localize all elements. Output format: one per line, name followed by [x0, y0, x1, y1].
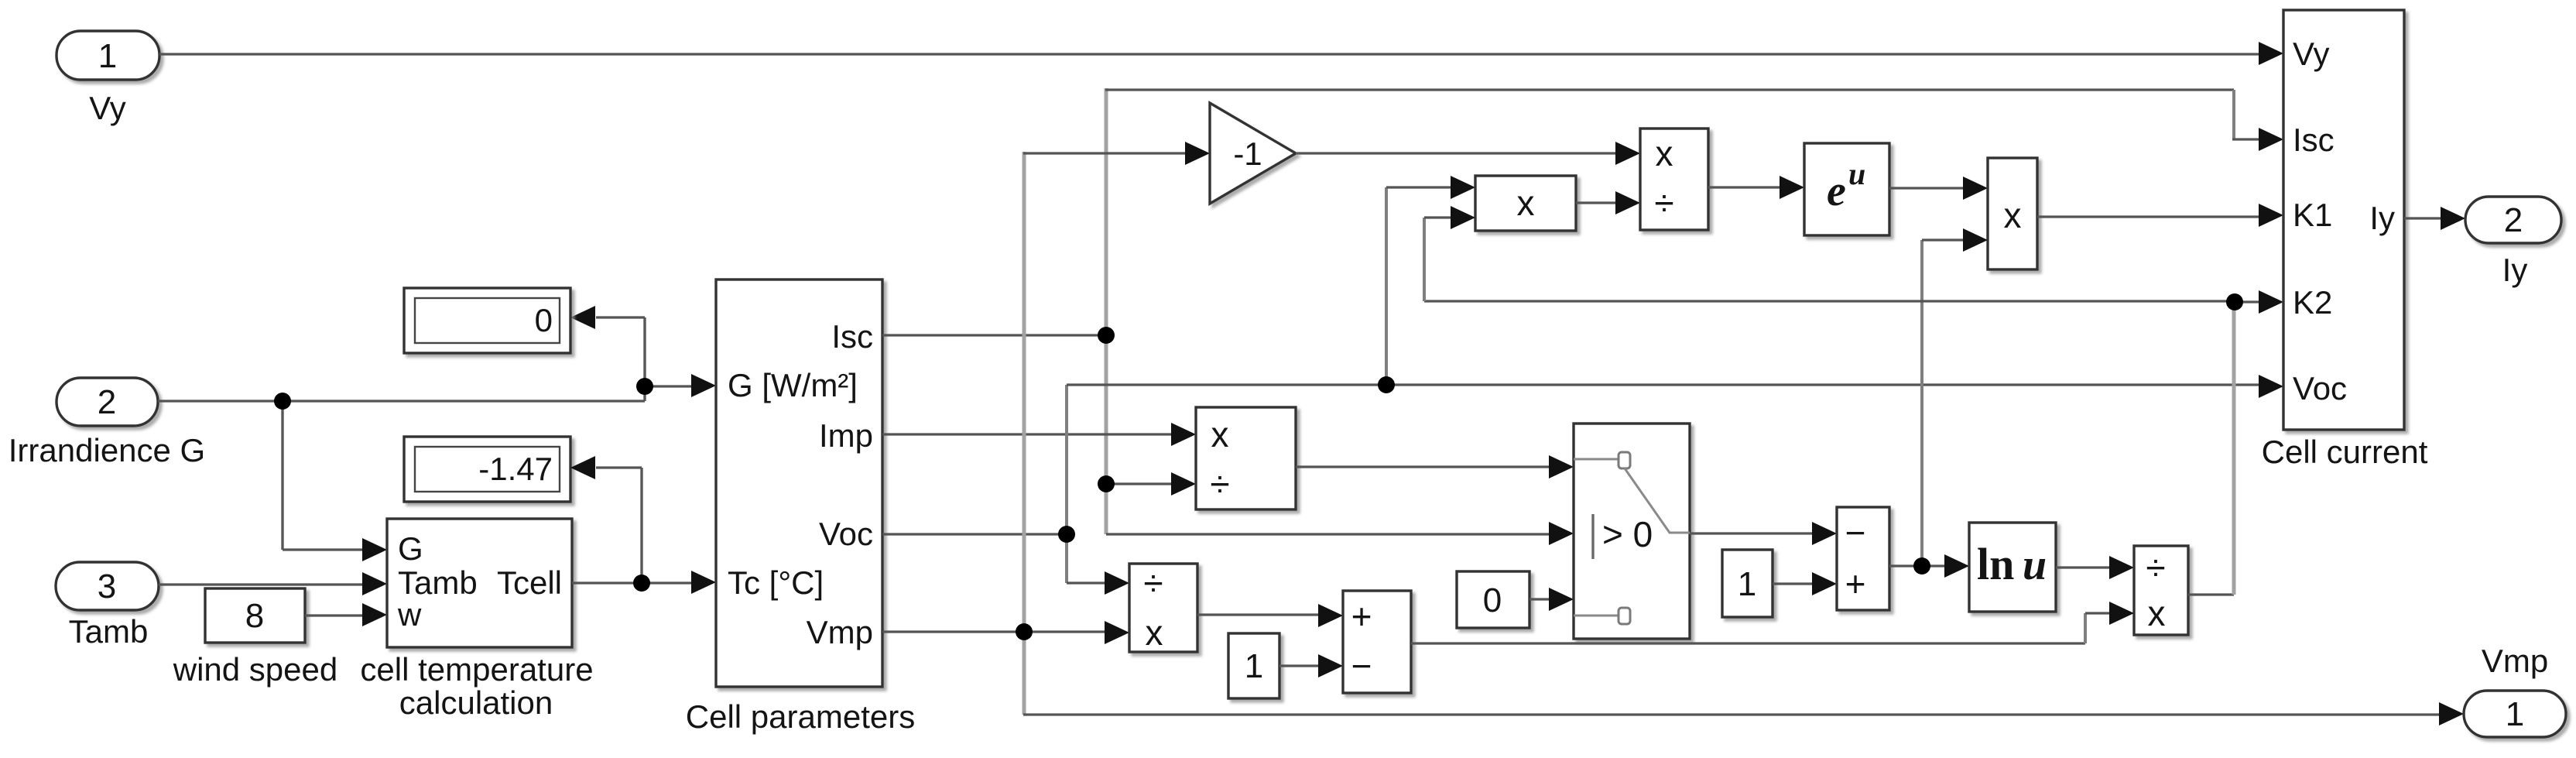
math function exp eu — [1804, 143, 1889, 235]
wire inport 3 to cell temperature Tamb input — [159, 572, 387, 595]
product x tall — [1988, 158, 2037, 269]
constant 1 mid — [1722, 550, 1773, 617]
sum plus minus bottom-left — [1343, 591, 1411, 693]
svg-text:Isc: Isc — [831, 318, 873, 355]
svg-text:x: x — [1146, 612, 1163, 653]
wire switch out to sum minus input — [1690, 522, 1837, 545]
svg-text:Iy: Iy — [2369, 200, 2395, 236]
wire constant 8 to cell temperature w input — [305, 603, 387, 626]
switch greater than 0 — [1574, 424, 1690, 639]
subsystem cell temperature calculation — [360, 519, 593, 721]
svg-text:x: x — [1517, 183, 1535, 223]
svg-text:1: 1 — [98, 37, 117, 75]
product x-divide top — [1640, 129, 1708, 230]
wire sum bottom-left out to divide right x input — [1411, 602, 2134, 643]
wire constant 1 mid to sum plus input — [1773, 572, 1837, 595]
wire exp to product x tall — [1889, 177, 1988, 200]
svg-text:x: x — [2004, 195, 2022, 235]
svg-text:−: − — [1845, 513, 1866, 553]
svg-text:Voc: Voc — [2293, 370, 2347, 406]
wire x-divide to switch input 1 — [1296, 455, 1574, 478]
svg-text:0: 0 — [1483, 581, 1502, 619]
svg-text:Isc: Isc — [2293, 122, 2334, 158]
wire sum out to ln u and product x tall lower input — [1889, 228, 1988, 578]
svg-text:Vmp: Vmp — [807, 614, 873, 650]
constant 1 bottom-left — [1228, 633, 1279, 698]
svg-text:8: 8 — [245, 597, 264, 635]
wire net G: inport 2 to Cell parameters G input, display 0, and cell temperature G input — [158, 306, 716, 561]
svg-text:x: x — [1656, 133, 1673, 173]
wire product x-divide to exp — [1708, 176, 1804, 199]
constant 0 — [1457, 571, 1529, 628]
constant 8 (wind speed) — [173, 588, 337, 688]
svg-text:-1.47: -1.47 — [478, 451, 553, 487]
svg-text:1: 1 — [1738, 565, 1756, 603]
svg-text:G [W/m²]: G [W/m²] — [728, 367, 858, 403]
wire net Vmp: Cell parameters Vmp out to divide block, gain -1, outport Vmp — [882, 142, 2464, 725]
inport 1 (Vy) — [57, 31, 159, 126]
wire net Isc: Cell parameters Isc out to Cell current Isc, x-divide input, switch control — [882, 88, 2283, 545]
svg-text:e: e — [1827, 167, 1846, 215]
svg-text:K2: K2 — [2293, 284, 2332, 321]
gain -1 — [1210, 103, 1296, 204]
svg-text:Tamb: Tamb — [398, 564, 478, 601]
svg-text:ln: ln — [1977, 539, 2014, 589]
math function ln u — [1969, 523, 2056, 612]
svg-text:2: 2 — [98, 383, 116, 421]
svg-text:Vmp: Vmp — [2482, 643, 2548, 679]
svg-text:Voc: Voc — [819, 516, 873, 552]
svg-text:K1: K1 — [2293, 197, 2332, 233]
svg-text:1: 1 — [2506, 695, 2524, 733]
wire gain -1 to product xdiv — [1296, 142, 1640, 165]
wire net Imp: Cell parameters Imp out to x-divide input — [882, 423, 1196, 446]
svg-text:Cell current: Cell current — [2262, 434, 2428, 470]
wire Cell current Iy to outport 2 — [2404, 207, 2465, 230]
svg-text:u: u — [1848, 156, 1865, 191]
display block -1.47 — [404, 437, 570, 502]
svg-text:-1: -1 — [1233, 135, 1262, 172]
wire product x tall to Cell current K1 — [2037, 204, 2283, 227]
svg-text:wind speed: wind speed — [173, 651, 337, 688]
svg-text:+: + — [1351, 596, 1372, 636]
svg-text:+: + — [1845, 564, 1866, 604]
product x small — [1475, 176, 1576, 231]
svg-text:Imp: Imp — [819, 417, 873, 454]
subsystem Cell parameters — [686, 280, 915, 735]
svg-text:Tc [°C]: Tc [°C] — [728, 564, 824, 601]
display block 0 — [404, 288, 570, 353]
wire net K2: divide out to Cell current K2 and product x small lower input — [1424, 206, 2283, 595]
svg-text:0: 0 — [535, 302, 553, 338]
svg-text:Vy: Vy — [89, 90, 125, 126]
svg-text:−: − — [1351, 646, 1372, 686]
svg-text:calculation: calculation — [399, 684, 553, 721]
svg-text:> 0: > 0 — [1602, 514, 1653, 554]
svg-text:Iy: Iy — [2502, 252, 2528, 288]
svg-text:÷: ÷ — [1654, 183, 1673, 223]
divide div-x right — [2134, 546, 2188, 635]
svg-text:x: x — [1211, 414, 1229, 454]
svg-text:Tamb: Tamb — [69, 613, 149, 650]
svg-text:Tcell: Tcell — [497, 564, 562, 601]
svg-text:u: u — [2023, 541, 2047, 589]
svg-text:Irrandience G: Irrandience G — [9, 432, 205, 468]
wire divide left to sum plus bottom-left — [1197, 604, 1343, 627]
subsystem Cell current — [2262, 10, 2428, 470]
svg-text:÷: ÷ — [1143, 563, 1163, 603]
svg-text:2: 2 — [2504, 201, 2523, 239]
product x-divide Imp over Isc — [1196, 407, 1296, 509]
inport 2 (Irrandience G) — [9, 378, 205, 468]
wire constant 1 bottom-left to sum minus input — [1279, 654, 1343, 677]
svg-text:3: 3 — [98, 568, 116, 605]
wire Vy to Cell current — [159, 42, 2283, 65]
svg-text:Cell parameters: Cell parameters — [686, 698, 915, 735]
svg-text:w: w — [397, 596, 422, 633]
wire ln u to divide — [2056, 556, 2134, 579]
svg-text:cell temperature: cell temperature — [360, 651, 593, 688]
wire net Voc: Cell parameters Voc out to Cell current Voc, product x, divide block — [882, 176, 2283, 595]
outport 2 (Iy) — [2465, 197, 2561, 288]
outport 1 (Vmp) — [2464, 643, 2566, 737]
divide div-x left — [1129, 563, 1197, 653]
sum minus plus — [1837, 507, 1889, 610]
wire product x small to product xdiv — [1576, 191, 1640, 214]
svg-text:x: x — [2148, 593, 2166, 633]
svg-text:÷: ÷ — [2146, 547, 2165, 588]
svg-text:÷: ÷ — [1210, 464, 1229, 504]
inport 3 (Tamb) — [56, 562, 159, 650]
svg-text:G: G — [398, 530, 423, 567]
wire constant 0 to switch input 3 — [1529, 588, 1574, 611]
svg-text:1: 1 — [1245, 647, 1263, 685]
svg-text:Vy: Vy — [2293, 36, 2329, 72]
wire Tcell to Cell parameters Tc input and display -1.47 — [570, 456, 716, 594]
